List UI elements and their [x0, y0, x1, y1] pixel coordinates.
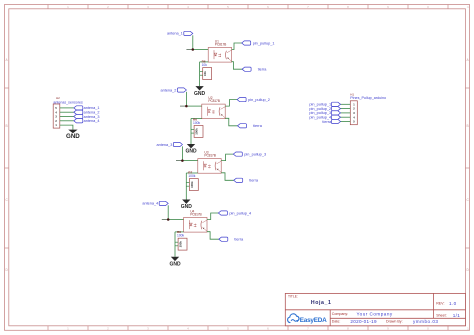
svg-text:pin_pullup_4: pin_pullup_4	[229, 211, 252, 215]
svg-text:PC817B: PC817B	[190, 212, 202, 216]
svg-text:Hoja_1: Hoja_1	[311, 300, 332, 306]
svg-text:Date:: Date:	[332, 320, 341, 324]
svg-text:tierra: tierra	[234, 237, 244, 241]
svg-text:pin_pullup_2: pin_pullup_2	[248, 98, 270, 102]
svg-text:GND: GND	[66, 133, 80, 140]
svg-text:100k: 100k	[188, 174, 196, 178]
svg-text:Your Company: Your Company	[357, 311, 393, 316]
svg-text:Company:: Company:	[332, 312, 348, 316]
svg-text:tierra: tierra	[258, 67, 268, 71]
svg-text:PC817B: PC817B	[215, 42, 227, 46]
svg-text:1.0: 1.0	[449, 301, 457, 306]
svg-text:REV:: REV:	[436, 302, 444, 306]
svg-text:GND: GND	[169, 261, 181, 267]
svg-text:pin_pullup_3: pin_pullup_3	[244, 152, 266, 156]
svg-text:antena_1: antena_1	[167, 32, 183, 36]
svg-text:H2: H2	[56, 96, 60, 100]
svg-text:tierra: tierra	[249, 179, 259, 183]
svg-text:10k: 10k	[202, 63, 208, 67]
svg-text:100k: 100k	[193, 121, 201, 125]
svg-text:10k: 10k	[203, 71, 207, 76]
svg-text:PC817B: PC817B	[204, 154, 216, 158]
svg-text:100k: 100k	[190, 181, 194, 188]
svg-text:EasyEDA: EasyEDA	[300, 317, 327, 324]
svg-text:ymmbo.03: ymmbo.03	[413, 319, 438, 324]
svg-text:Pines_Pullup_arduino: Pines_Pullup_arduino	[350, 96, 386, 100]
svg-text:Sheet:: Sheet:	[436, 314, 446, 318]
svg-text:antena_4: antena_4	[84, 119, 100, 123]
svg-text:tierra: tierra	[322, 120, 332, 124]
svg-text:pin_pullup_1: pin_pullup_1	[253, 41, 275, 45]
svg-text:B: B	[6, 124, 8, 128]
svg-text:1/1: 1/1	[453, 313, 460, 318]
svg-text:B: B	[467, 124, 469, 128]
svg-text:TITLE:: TITLE:	[288, 294, 298, 298]
svg-text:Drawn By:: Drawn By:	[386, 320, 403, 324]
svg-text:GND: GND	[194, 91, 206, 97]
svg-text:100k: 100k	[179, 241, 183, 248]
svg-text:antena_3: antena_3	[157, 143, 173, 147]
svg-text:100k: 100k	[177, 234, 185, 238]
svg-text:100k: 100k	[195, 128, 199, 135]
svg-text:antena_4: antena_4	[142, 202, 158, 206]
svg-text:2020-01-19: 2020-01-19	[350, 319, 377, 324]
svg-text:antena_2: antena_2	[161, 88, 177, 92]
svg-text:PC817B: PC817B	[208, 99, 220, 103]
svg-text:tierra: tierra	[253, 124, 263, 128]
svg-text:GND: GND	[185, 149, 197, 155]
